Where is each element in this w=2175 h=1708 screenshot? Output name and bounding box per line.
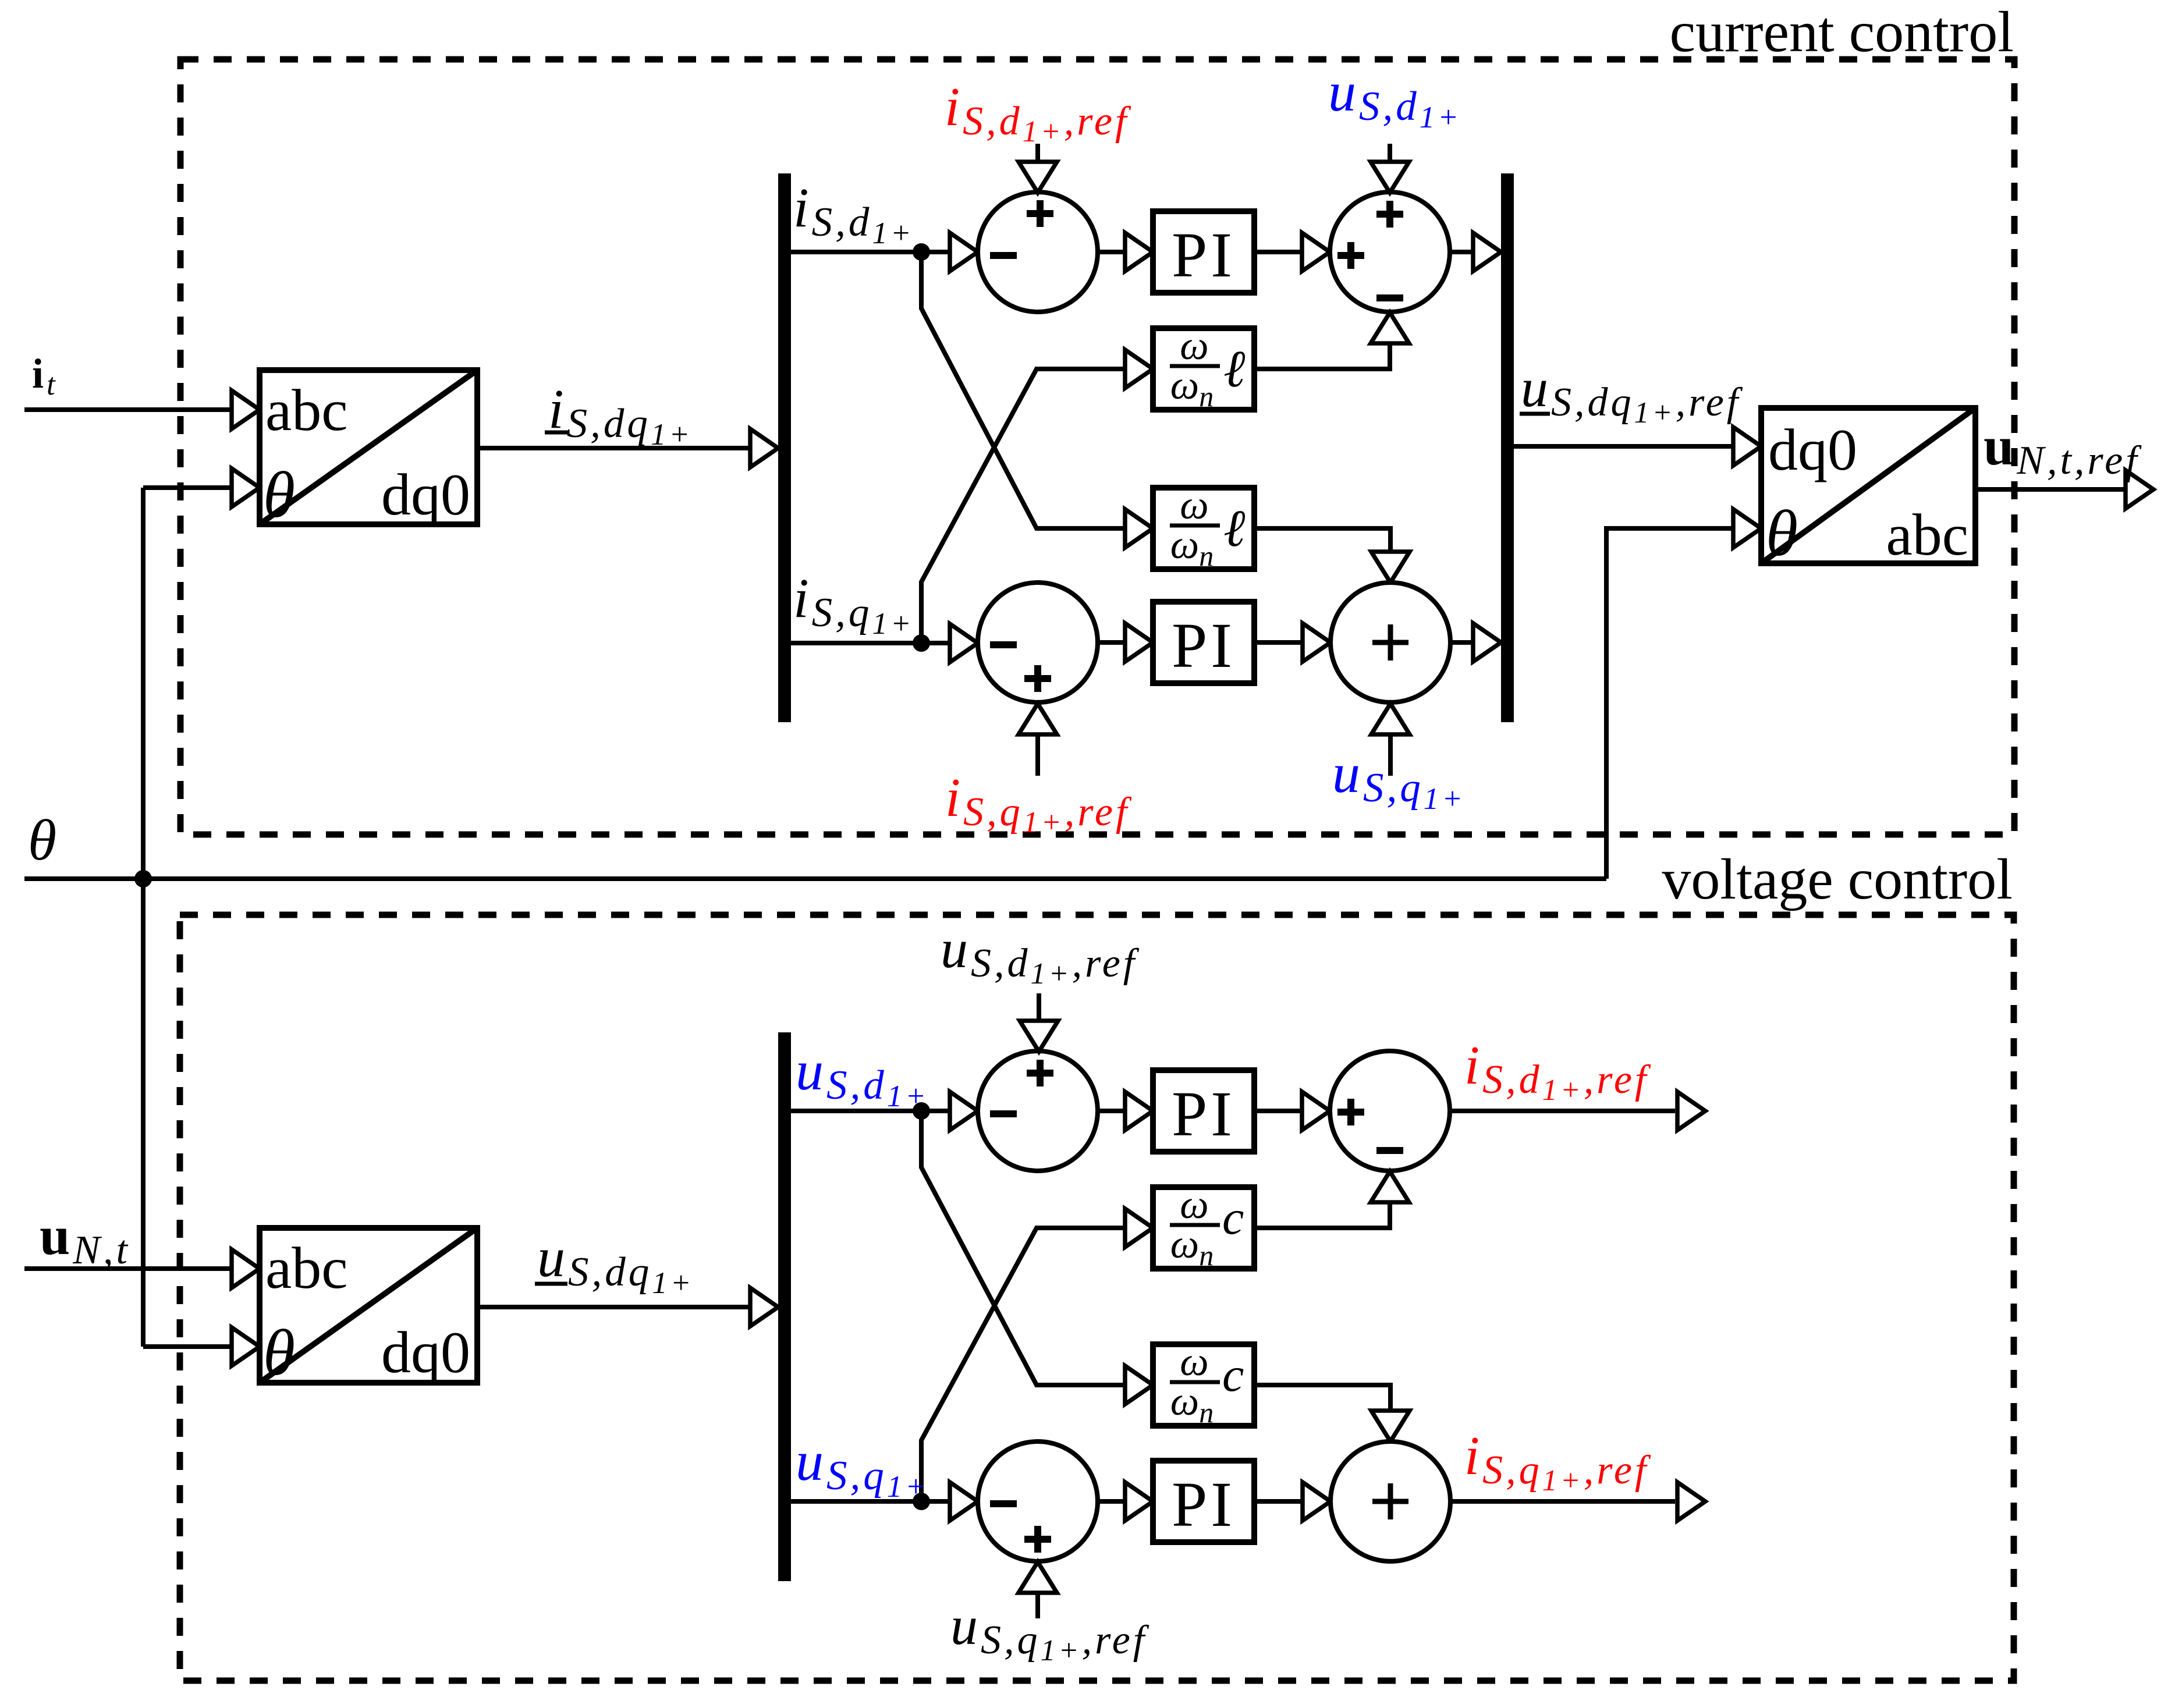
summing junction S3 (current q error) — [978, 583, 1098, 702]
controller PI2 — [1153, 602, 1254, 683]
arrowhead feedforward into sum2 bottom — [1371, 313, 1409, 343]
wire i_S,d1+,ref vertical — [1035, 144, 1040, 163]
transform block abc->dq0 (top) — [260, 370, 477, 531]
arrowhead into sum3 — [950, 624, 978, 662]
svg-text:dq0: dq0 — [381, 462, 470, 528]
summing junction S5 (voltage d error) — [978, 1051, 1098, 1171]
svg-text:abc: abc — [265, 378, 348, 443]
wire sum1 to PI1 — [1098, 250, 1126, 254]
arrowhead into PI4 — [1125, 1482, 1153, 1521]
wire i_S,dq1+ output — [477, 446, 751, 450]
svg-text:dq0: dq0 — [381, 1320, 470, 1386]
summing junction S6 (voltage d output) — [1330, 1051, 1450, 1171]
wire u_S,dq1+,ref to dq0/abc — [1514, 444, 1734, 449]
junction u_S,d1+ — [913, 1102, 930, 1120]
wire u_S,q1+,ref vertical — [1035, 1593, 1040, 1618]
arrowhead u_N,t,ref output — [2126, 470, 2153, 509]
summing junction S4 (current q output) — [1330, 583, 1450, 702]
svg-text:PI: PI — [1172, 610, 1236, 681]
gain block omega/omega_n*l (upper) — [1153, 324, 1254, 413]
svg-text:abc: abc — [1886, 502, 1968, 568]
gain block omega/omega_n*l (lower) — [1153, 483, 1254, 572]
bus bar current left — [778, 173, 791, 722]
summing junction S2 (current d output) — [1330, 192, 1450, 312]
arrowhead into lower omega block — [1125, 509, 1153, 548]
arrowhead into sum4 — [1303, 623, 1330, 662]
arrowhead into PI2 — [1125, 623, 1153, 662]
arrowhead feedforward into sum4 top — [1371, 552, 1410, 583]
wire cross-coupling from voltage q junction — [921, 1228, 1126, 1501]
label u_S,d1+,ref — [941, 919, 1140, 990]
wire sum3 to PI2 — [1098, 640, 1126, 645]
gain block omega/omega_n*c (upper) — [1153, 1183, 1254, 1272]
label u_S,d1+ (blue) — [796, 1039, 929, 1113]
label i_S,q1+,ref (red) — [945, 768, 1132, 839]
wire u_S,dq1+ output — [477, 1305, 751, 1309]
wire sum6 output i_S,d1+,ref — [1450, 1109, 1675, 1113]
wire i_S,q1+ from bus — [791, 641, 951, 645]
node theta label — [28, 808, 56, 872]
summing junction S8 (voltage q output) — [1330, 1441, 1450, 1561]
svg-text:PI: PI — [1172, 219, 1236, 290]
arrowhead i_S,q1+,ref output — [1677, 1482, 1705, 1521]
svg-text:c: c — [1222, 1191, 1244, 1245]
svg-text:abc: abc — [265, 1235, 348, 1301]
voltage control dashed boundary box — [180, 915, 2014, 1681]
wire sum2 to bus — [1450, 250, 1474, 254]
svg-text:PI: PI — [1172, 1469, 1236, 1540]
controller PI4 — [1153, 1461, 1254, 1542]
wire sum8 output i_S,q1+,ref — [1450, 1499, 1675, 1504]
arrowhead sum4 into right bus — [1473, 623, 1501, 662]
wire u_S,d1+ vertical — [1388, 144, 1392, 162]
summing junction S1 (current d error) — [978, 192, 1098, 312]
wire u_S,d1+,ref vertical — [1037, 993, 1041, 1022]
arrowhead into PI3 — [1125, 1092, 1153, 1130]
label i_S,q1+,ref (red, output) — [1464, 1426, 1651, 1497]
label u_S,q1+ (blue) — [1332, 742, 1466, 816]
wire u_S,q1+ vertical — [1388, 734, 1393, 776]
wire cross-coupling from q junction — [921, 369, 1126, 643]
svg-text:PI: PI — [1172, 1078, 1236, 1149]
arrowhead into upper omega block — [1125, 350, 1153, 388]
arrowhead into sum6 — [1302, 1092, 1330, 1130]
wire i_t input — [24, 407, 233, 412]
arrowhead into sum8 — [1303, 1482, 1330, 1521]
arrowhead sum2 into right bus — [1473, 233, 1501, 271]
arrowhead into sum2 — [1302, 233, 1330, 271]
svg-text:ℓ: ℓ — [1223, 340, 1246, 398]
wire cross-coupling from d junction — [921, 252, 1126, 528]
svg-text:ℓ: ℓ — [1223, 500, 1246, 558]
arrowhead theta into bottom abc/dq0 — [232, 1327, 260, 1366]
wire u_N,t,ref output — [1975, 487, 2127, 492]
junction i_S,q1+ — [913, 634, 930, 652]
wire theta into top abc/dq0 — [143, 485, 233, 490]
arrowhead into lower omega-c block — [1125, 1366, 1153, 1404]
arrowhead i_S,d1+,ref output — [1677, 1092, 1705, 1130]
svg-text:ω: ω — [1180, 324, 1208, 368]
svg-text:ω: ω — [1180, 483, 1208, 528]
wire lower omega-l to sum4 top — [1254, 528, 1390, 552]
label i_t — [32, 350, 58, 402]
arrowhead u_S,q1+ into sum4 — [1371, 704, 1410, 734]
transform block abc->dq0 (bottom) — [260, 1228, 477, 1389]
controller PI1 — [1153, 211, 1254, 293]
wire u_S,d1+ from bus — [791, 1109, 951, 1113]
label u_S,q1+,ref — [950, 1596, 1149, 1667]
label i_S,d1+ — [793, 176, 914, 250]
arrowhead into sum7 — [950, 1482, 978, 1521]
label u_S,dq1+,ref — [1520, 358, 1743, 429]
arrowhead into upper omega-c block — [1125, 1209, 1153, 1247]
arrowhead into sum5 — [950, 1092, 978, 1130]
wire PI4 to sum8 — [1254, 1499, 1304, 1504]
arrowhead theta into abc/dq0 — [232, 468, 260, 507]
wire sum7 to PI4 — [1098, 1499, 1126, 1504]
label current control — [1670, 0, 2014, 64]
wire theta trunk horizontal — [24, 876, 1606, 881]
wire sum5 to PI3 — [1098, 1109, 1126, 1113]
arrowhead into current bus left — [750, 429, 778, 467]
summing junction S7 (voltage q error) — [978, 1441, 1098, 1561]
arrowhead i_t into abc/dq0 — [232, 390, 260, 429]
wire cross-coupling from voltage d junction — [921, 1111, 1126, 1385]
label u_N,t,ref — [1984, 416, 2142, 483]
label i_S,q1+ — [793, 567, 914, 641]
svg-text:θ: θ — [263, 459, 295, 531]
current control dashed boundary box — [180, 59, 2014, 835]
label u_S,dq1+ — [535, 1226, 694, 1300]
gain block omega/omega_n*c (lower) — [1153, 1340, 1254, 1429]
svg-text:ω: ω — [1180, 1340, 1208, 1384]
label i_S,dq1+ — [545, 378, 693, 452]
label voltage control — [1662, 847, 2013, 911]
arrowhead into sum1 — [950, 233, 978, 271]
wire upper omega-l to sum2 bottom — [1254, 343, 1390, 369]
arrowhead i_S,q1+,ref into sum3 — [1019, 704, 1057, 734]
wire lower omega-c to sum8 top — [1254, 1385, 1390, 1411]
svg-text:dq0: dq0 — [1768, 417, 1857, 483]
wire sum4 to bus — [1450, 640, 1474, 645]
junction i_S,d1+ — [913, 243, 930, 261]
label u_N,t — [40, 1206, 130, 1273]
wire upper omega-c to sum6 bottom — [1254, 1202, 1390, 1228]
arrowhead into dq0/abc — [1733, 427, 1761, 466]
svg-text:θ: θ — [263, 1317, 295, 1389]
junction theta trunk — [134, 870, 152, 887]
bus bar voltage left — [778, 1032, 791, 1581]
svg-text:θ: θ — [28, 808, 56, 872]
wire PI2 to sum4 — [1254, 640, 1304, 645]
transform block dq0->abc (right) — [1761, 408, 1975, 570]
arrowhead u_S,d1+ into sum2 — [1371, 162, 1409, 193]
label i_S,d1+,ref (red, output) — [1464, 1035, 1651, 1107]
arrowhead u_S,q1+,ref into sum7 — [1019, 1562, 1057, 1593]
wire theta into bottom abc/dq0 — [143, 1344, 233, 1349]
controller PI3 — [1153, 1070, 1254, 1152]
svg-text:current control: current control — [1670, 0, 2014, 64]
arrowhead into PI1 — [1125, 233, 1153, 271]
arrowhead feedforward into sum8 top — [1371, 1411, 1410, 1441]
wire u_S,q1+ from bus — [791, 1499, 951, 1504]
arrowhead feedforward into sum6 bottom — [1371, 1171, 1409, 1202]
label u_S,d1+ (blue) — [1328, 61, 1461, 134]
arrowhead u_S,d1+,ref into sum5 — [1020, 1021, 1058, 1052]
junction u_S,q1+ — [913, 1493, 930, 1510]
arrowhead theta into dq0/abc — [1733, 509, 1761, 548]
label i_S,d1+,ref (red) — [945, 77, 1131, 148]
wire theta right riser — [1606, 528, 1734, 879]
svg-text:ω: ω — [1180, 1183, 1208, 1227]
bus bar current right — [1501, 173, 1514, 722]
svg-text:voltage control: voltage control — [1662, 847, 2013, 911]
wire PI3 to sum6 — [1254, 1109, 1303, 1113]
wire i_S,q1+,ref vertical — [1035, 734, 1040, 776]
svg-text:c: c — [1222, 1348, 1244, 1402]
svg-text:θ: θ — [1766, 498, 1798, 570]
wire i_S,d1+ from bus — [791, 250, 951, 254]
wire PI1 to sum2 — [1254, 250, 1303, 254]
arrowhead i_S,d1+,ref into sum1 — [1019, 162, 1057, 193]
wire u_N,t input — [24, 1266, 233, 1271]
arrowhead u_N,t into abc/dq0 — [232, 1249, 260, 1288]
arrowhead into voltage bus — [750, 1288, 778, 1326]
wire theta left riser vertical — [141, 488, 146, 1347]
label u_S,q1+ (blue) — [796, 1430, 929, 1504]
